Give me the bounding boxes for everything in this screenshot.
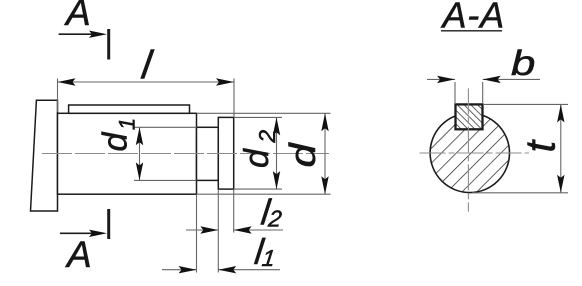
neck bbox=[197, 127, 219, 180]
section line A top bbox=[107, 29, 110, 60]
dim b arrow left bbox=[437, 76, 455, 83]
svg-text:l2: l2 bbox=[259, 192, 285, 233]
dim l2 arrow right bbox=[234, 226, 252, 233]
collar bbox=[218, 117, 233, 189]
key section bbox=[456, 104, 483, 129]
shaft section circle bbox=[430, 113, 509, 192]
dim t extension top bbox=[484, 103, 568, 105]
dim t line bbox=[560, 104, 562, 192]
dim l1 extension left bbox=[196, 194, 198, 272]
dim l arrow left bbox=[58, 78, 76, 85]
dim d1 arrow bottom bbox=[136, 162, 143, 180]
svg-text:A: A bbox=[64, 0, 91, 33]
svg-text:t: t bbox=[517, 139, 564, 153]
section arrow A bottom bbox=[60, 232, 92, 234]
svg-text:l1: l1 bbox=[253, 231, 279, 272]
dim l arrow right bbox=[216, 78, 234, 85]
shaft cylinder bbox=[58, 113, 197, 194]
dim d2 arrow top bbox=[273, 117, 280, 135]
key (side view) bbox=[69, 105, 190, 113]
dim d1 arrow top bbox=[136, 127, 143, 145]
dim b arrow right bbox=[483, 76, 501, 83]
dim d2 extension bottom bbox=[234, 188, 282, 190]
centerline (left view axis) bbox=[42, 153, 329, 155]
A-A underline bbox=[441, 30, 502, 32]
dim b line left bbox=[427, 78, 455, 80]
dim b extension left bbox=[454, 82, 456, 104]
svg-text:A: A bbox=[65, 234, 92, 275]
dim t arrow top bbox=[557, 104, 564, 122]
dim b line right bbox=[483, 78, 540, 80]
dim d arrow bottom bbox=[321, 176, 328, 194]
svg-text:d2: d2 bbox=[238, 130, 280, 168]
dim l1 arrow right bbox=[218, 266, 236, 273]
dim d line bbox=[324, 113, 326, 194]
dim d2 arrow bottom bbox=[273, 171, 280, 189]
dim d2 line bbox=[276, 117, 278, 189]
dim l2 line left bbox=[186, 229, 218, 231]
dim l line bbox=[58, 81, 235, 83]
svg-text:l: l bbox=[139, 43, 156, 88]
svg-text:d: d bbox=[283, 141, 323, 167]
dim l2 arrow left bbox=[200, 226, 218, 233]
housing wall bbox=[31, 100, 58, 211]
dim l extension right bbox=[233, 79, 235, 118]
dim l2 line right bbox=[234, 229, 283, 231]
dim d2 extension top bbox=[234, 116, 282, 118]
dim d1 line bbox=[139, 127, 141, 180]
section line A bottom bbox=[107, 209, 110, 239]
dim d extension top bbox=[197, 112, 331, 114]
section horizontal centerline bbox=[420, 152, 529, 154]
dim l1 line right bbox=[218, 269, 280, 271]
dim b extension right bbox=[482, 82, 484, 104]
section arrow A top bbox=[59, 33, 92, 35]
dim d extension bottom bbox=[197, 193, 331, 195]
dim d1 extension bottom bbox=[134, 179, 197, 181]
dim l1 line left bbox=[162, 269, 197, 271]
dim l1 extension right bbox=[217, 189, 219, 272]
dim l2 extension bbox=[233, 189, 235, 232]
dim l1 arrow left bbox=[179, 266, 197, 273]
dim l extension left bbox=[57, 79, 59, 113]
dim t arrow bottom bbox=[557, 175, 564, 193]
section vertical centerline bbox=[467, 88, 469, 211]
svg-text:b: b bbox=[511, 44, 535, 83]
dim d arrow top bbox=[321, 113, 328, 131]
dim d1 extension top bbox=[134, 126, 197, 128]
dim t extension bottom bbox=[472, 192, 568, 194]
